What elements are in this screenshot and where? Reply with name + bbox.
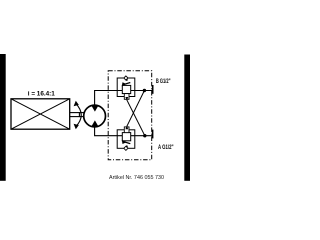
pilot line B (from wire A junction up to upper valve) bbox=[127, 100, 145, 136]
wire from motor top to valve block port B bbox=[95, 91, 153, 105]
port A tick bbox=[152, 130, 154, 139]
lower valve V2 spring box bbox=[124, 127, 129, 133]
right black sidebar bbox=[184, 55, 190, 181]
gearbox G1 body bbox=[11, 99, 70, 129]
svg-text:Artikel Nr. 746 055 730: Artikel Nr. 746 055 730 bbox=[109, 175, 164, 181]
lower valve V2 body square bbox=[122, 133, 130, 141]
lower valve V2 pilot arrowhead bbox=[125, 126, 128, 130]
rotation arc arrowhead top bbox=[74, 101, 79, 107]
wire from motor bottom to valve block port A bbox=[95, 127, 153, 135]
shaft lower line bbox=[70, 116, 85, 118]
shaft upper line bbox=[70, 112, 85, 114]
motor triangle bottom bbox=[91, 120, 98, 126]
svg-text:i = 16.4:1: i = 16.4:1 bbox=[28, 90, 55, 97]
rotation arc arrowhead bottom bbox=[74, 124, 79, 130]
svg-text:A G1/2": A G1/2" bbox=[158, 144, 174, 151]
left black sidebar bbox=[0, 54, 6, 181]
hydraulic motor M1 circle bbox=[84, 105, 106, 127]
lower valve V2 arrow tail bbox=[124, 141, 130, 144]
valve block dashed enclosure bbox=[108, 71, 152, 160]
rotation arc bbox=[76, 103, 82, 127]
upper valve V1 body square bbox=[122, 85, 130, 93]
lower valve V2 arrow dot bbox=[126, 145, 128, 147]
lower valve V2 arrow head bbox=[122, 140, 127, 144]
upper valve V1 pilot arrowhead bbox=[125, 97, 128, 101]
junction dot on wire B bbox=[143, 89, 146, 92]
upper valve V1 spring box bbox=[124, 94, 129, 100]
junction dot on wire A bbox=[143, 134, 146, 137]
motor triangle top bbox=[91, 105, 98, 111]
upper valve V1 diamond bbox=[124, 76, 128, 80]
upper valve V1 arrow dot bbox=[126, 79, 128, 81]
lower valve V2 diamond bbox=[124, 146, 128, 150]
upper valve V1 pilot loop bbox=[117, 78, 135, 97]
lower valve V2 pilot loop bbox=[117, 130, 135, 149]
svg-text:B G1/2": B G1/2" bbox=[156, 78, 171, 85]
gearbox G1 diagonal 2 bbox=[11, 99, 70, 129]
pilot line A (from wire B junction down to lower valve) bbox=[127, 91, 145, 127]
shaft coupling joint bbox=[78, 112, 80, 117]
gearbox G1 diagonal 1 bbox=[11, 99, 70, 129]
upper valve V1 arrow head bbox=[122, 82, 127, 86]
upper valve V1 arrow tail bbox=[124, 82, 130, 85]
port B tick bbox=[152, 85, 154, 94]
